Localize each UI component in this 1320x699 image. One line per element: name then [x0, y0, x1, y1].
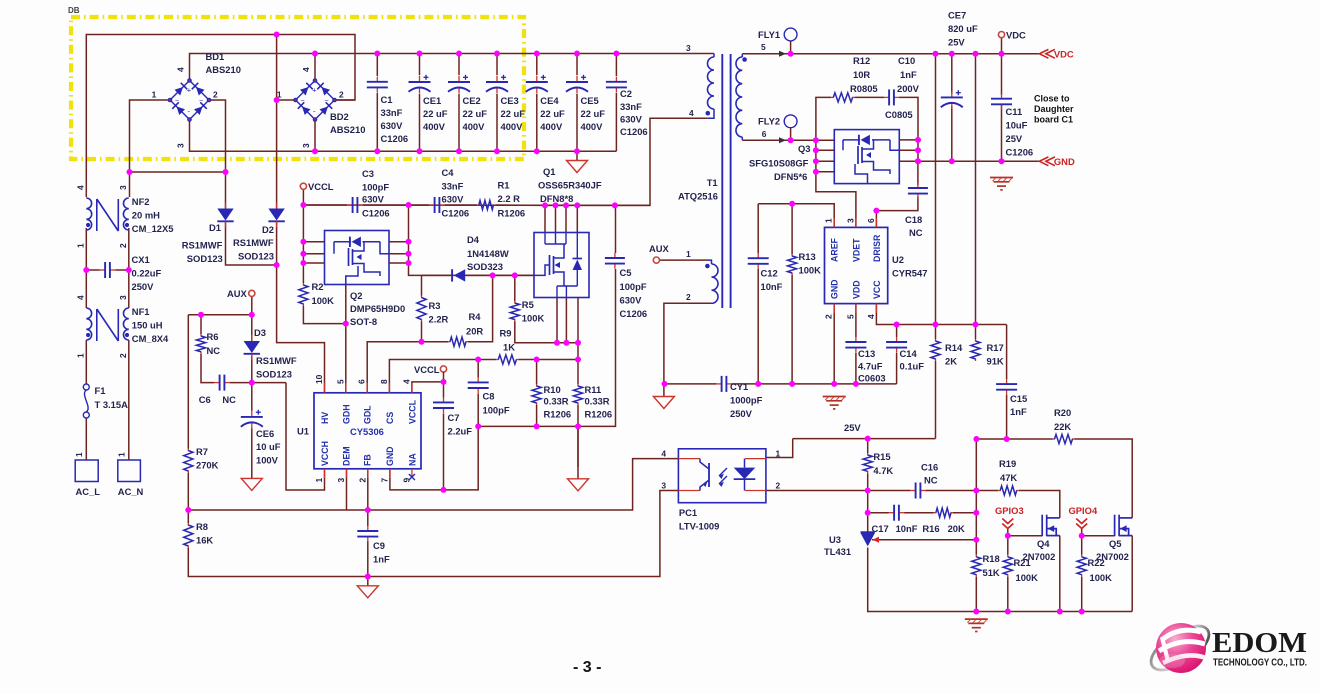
svg-text:10uF: 10uF	[1006, 120, 1028, 131]
svg-text:1: 1	[152, 90, 157, 100]
wire R19 to Q4 drain	[976, 490, 998, 492]
wire U2 pin4 VDD net y324.5	[876, 304, 1006, 325]
ground C9 net	[367, 577, 369, 586]
wire R2 column	[302, 205, 304, 283]
svg-text:2K: 2K	[945, 356, 957, 367]
svg-text:22 uF: 22 uF	[463, 108, 488, 119]
svg-text:3: 3	[661, 481, 666, 491]
svg-text:C10: C10	[898, 55, 915, 66]
svg-text:7: 7	[379, 478, 389, 483]
wire D1 cathode to D2	[226, 221, 277, 265]
svg-text:2.2 R: 2.2 R	[498, 193, 521, 204]
wire Q3 right stubs	[899, 139, 918, 141]
svg-text:2: 2	[686, 292, 691, 302]
svg-text:T 3.15A: T 3.15A	[95, 399, 129, 410]
svg-text:C2: C2	[620, 88, 632, 99]
svg-text:Close to: Close to	[1034, 94, 1070, 104]
svg-text:FLY2: FLY2	[758, 116, 780, 127]
wire U2 pin5 / C13	[855, 304, 857, 337]
ground cap bus	[576, 151, 578, 160]
svg-text:EDOM: EDOM	[1212, 627, 1307, 659]
svg-text:C1206: C1206	[620, 308, 648, 319]
wire Q3 gate to U2 pin3	[816, 172, 856, 228]
svg-text:SOD123: SOD123	[238, 251, 274, 262]
svg-text:R8: R8	[196, 521, 208, 532]
optocoupler PC1 LTV-1009	[678, 449, 766, 503]
svg-text:200V: 200V	[897, 83, 920, 94]
capacitor C1	[376, 77, 378, 82]
svg-text:R20: R20	[1054, 407, 1071, 418]
svg-text:CX1: CX1	[132, 254, 150, 265]
wire Q3 left stubs	[816, 139, 834, 141]
wire R12 loop	[816, 97, 831, 140]
wire T1 sec pin6 row	[742, 139, 816, 141]
svg-text:Q2: Q2	[350, 290, 363, 301]
svg-text:C1206: C1206	[620, 126, 648, 137]
wire VCCL2 pin4	[412, 382, 444, 393]
wire C12 column	[757, 204, 759, 253]
common-mode choke NF2	[86, 198, 91, 230]
resistor R12	[831, 96, 834, 98]
svg-text:820 uF: 820 uF	[948, 23, 978, 34]
svg-text:150 uH: 150 uH	[132, 320, 163, 331]
wire U2 pin1 AREF	[758, 204, 834, 228]
wire D2 cathode to U1 HV	[277, 221, 325, 393]
resistor R16	[934, 512, 937, 514]
capacitor C5	[614, 253, 616, 258]
wire BD2 pin stubs	[277, 99, 296, 101]
svg-text:270K: 270K	[196, 460, 219, 471]
wire R10 column	[536, 360, 538, 385]
wire CS net y359.5	[389, 360, 496, 393]
wire opto feedback y490.5	[766, 490, 868, 492]
resistor R5	[514, 301, 516, 304]
wire R5 column	[514, 275, 516, 301]
wire comp net y512.7	[867, 491, 869, 513]
svg-text:C1206: C1206	[1006, 147, 1034, 158]
IC U1 CY5306	[314, 393, 421, 469]
svg-text:2: 2	[213, 90, 218, 100]
svg-text:4: 4	[301, 67, 311, 72]
capacitor C18	[917, 183, 919, 188]
wire NF1 to F1 and AC_L	[85, 340, 87, 384]
wire R22 column	[1081, 536, 1083, 555]
resistor R9	[496, 359, 499, 361]
svg-text:C4: C4	[442, 167, 455, 178]
resistor R14	[935, 339, 937, 342]
wire gnd bus y426.4 to C5	[478, 269, 615, 426]
svg-text:Q5: Q5	[1109, 538, 1122, 549]
svg-text:NC: NC	[222, 394, 236, 405]
wire U1 pin3 DEM	[346, 469, 348, 510]
svg-text:R18: R18	[983, 553, 1000, 564]
wire U3 cathode column	[867, 513, 869, 532]
transistor Q3 SFG10S08GF	[834, 130, 899, 184]
svg-text:3: 3	[118, 185, 128, 190]
svg-text:400V: 400V	[540, 121, 563, 132]
svg-text:2N7002: 2N7002	[1096, 551, 1129, 562]
wire GDL net y341.7	[367, 342, 448, 393]
capacitor C11	[1001, 94, 1003, 99]
bridge rectifier BD1	[170, 81, 190, 101]
svg-text:5: 5	[335, 379, 345, 384]
svg-text:630V: 630V	[620, 295, 643, 306]
svg-text:2.2R: 2.2R	[429, 314, 449, 325]
wire BD1 pin1 to NF2	[130, 100, 171, 197]
capacitor CE6	[251, 411, 253, 417]
svg-text:33nF: 33nF	[381, 107, 403, 118]
wire FB net y510	[188, 459, 678, 510]
resistor R2	[302, 283, 304, 286]
svg-text:R14: R14	[945, 342, 963, 353]
svg-text:C9: C9	[373, 540, 385, 551]
wire C8 column	[477, 360, 479, 378]
svg-text:C7: C7	[448, 412, 460, 423]
wire VCCL net y205	[302, 186, 304, 205]
fuse F1	[83, 384, 89, 390]
svg-text:AC_N: AC_N	[118, 486, 144, 497]
wire R18 column	[975, 439, 977, 555]
svg-text:3: 3	[336, 478, 346, 483]
svg-text:board C1: board C1	[1034, 115, 1073, 125]
svg-text:400V: 400V	[501, 121, 524, 132]
svg-text:4: 4	[75, 295, 85, 300]
svg-text:1: 1	[686, 249, 691, 259]
svg-text:6: 6	[762, 129, 767, 139]
svg-text:2: 2	[357, 478, 367, 483]
svg-text:2: 2	[776, 481, 781, 491]
wire Q5 drain/source	[1131, 536, 1133, 612]
capacitor C15	[1006, 379, 1008, 384]
svg-text:51K: 51K	[983, 567, 1000, 578]
svg-text:U1: U1	[297, 426, 309, 437]
DB bulk-cap region outline	[71, 17, 524, 159]
svg-text:2.2uF: 2.2uF	[448, 426, 473, 437]
svg-text:ABS210: ABS210	[330, 124, 365, 135]
svg-text:D2: D2	[262, 224, 274, 235]
svg-text:SOD123: SOD123	[256, 369, 292, 380]
wire U1 gnd pin7	[390, 426, 478, 490]
svg-text:10: 10	[314, 374, 324, 384]
resistor R3	[421, 296, 423, 299]
wire FLY1 stub	[790, 41, 792, 54]
svg-text:R3: R3	[429, 300, 441, 311]
port VDC	[998, 31, 1004, 37]
svg-text:C1: C1	[381, 94, 393, 105]
svg-text:3: 3	[301, 143, 311, 148]
wire T1 sec pin5 bus to VDC	[742, 53, 1039, 55]
svg-text:22 uF: 22 uF	[423, 108, 448, 119]
svg-text:RS1MWF: RS1MWF	[233, 237, 274, 248]
svg-text:FLY1: FLY1	[758, 29, 780, 40]
svg-text:100pF: 100pF	[483, 405, 510, 416]
svg-text:100K: 100K	[799, 265, 822, 276]
wire R14 column	[935, 54, 937, 339]
svg-text:6: 6	[357, 379, 367, 384]
connector AC_L	[75, 460, 98, 482]
common-mode choke NF1	[86, 308, 91, 340]
svg-text:CYR547: CYR547	[892, 268, 927, 279]
svg-text:1: 1	[776, 449, 781, 459]
wire Q4 source	[1059, 536, 1061, 612]
svg-text:22 uF: 22 uF	[581, 108, 606, 119]
transistor Q1 OSS65R340JF	[534, 233, 589, 298]
capacitor C10	[884, 96, 890, 98]
svg-text:100K: 100K	[1016, 572, 1039, 583]
ground earth U2	[823, 396, 846, 398]
svg-text:4.7uF: 4.7uF	[858, 361, 883, 372]
svg-text:4: 4	[75, 185, 85, 190]
svg-text:20 mH: 20 mH	[132, 210, 160, 221]
svg-text:R4: R4	[469, 311, 482, 322]
capacitor C16	[910, 490, 916, 492]
wire Q2 gate to U1 GDH	[345, 285, 347, 393]
svg-text:R17: R17	[987, 342, 1004, 353]
wire D4 net y275.4	[409, 263, 535, 275]
svg-text:CE3: CE3	[501, 95, 519, 106]
svg-text:0.33R: 0.33R	[544, 396, 569, 407]
capacitor CE1	[419, 76, 421, 82]
svg-text:91K: 91K	[987, 356, 1004, 367]
svg-text:R16: R16	[922, 523, 939, 534]
svg-text:NF2: NF2	[132, 196, 150, 207]
svg-text:AUX: AUX	[649, 243, 670, 254]
capacitor CE7	[951, 91, 953, 97]
svg-text:CY1: CY1	[730, 381, 748, 392]
svg-text:R1206: R1206	[544, 409, 572, 420]
wire BD1-BD2 link y172	[130, 171, 226, 173]
svg-text:22 uF: 22 uF	[540, 108, 565, 119]
svg-text:22K: 22K	[1054, 421, 1071, 432]
svg-text:2: 2	[118, 243, 128, 248]
svg-text:1: 1	[117, 452, 127, 457]
svg-text:CE2: CE2	[463, 95, 481, 106]
svg-text:1nF: 1nF	[1010, 406, 1027, 417]
svg-text:R15: R15	[873, 451, 890, 462]
diode D1	[225, 203, 227, 209]
svg-text:R5: R5	[522, 299, 534, 310]
svg-text:10nF: 10nF	[896, 523, 918, 534]
svg-text:SOD123: SOD123	[187, 253, 223, 264]
resistor R13	[791, 254, 793, 257]
port AUX transformer	[653, 257, 659, 263]
diode D4	[454, 269, 466, 281]
wire aux pin2	[664, 303, 712, 384]
wire R21 column	[1007, 536, 1009, 555]
svg-text:AREF: AREF	[830, 237, 840, 262]
svg-text:T1: T1	[707, 177, 718, 188]
svg-text:VDC: VDC	[1006, 30, 1026, 41]
wire BD2 pin1 column	[276, 35, 278, 209]
capacitor C2	[615, 77, 617, 82]
svg-text:C18: C18	[905, 214, 922, 225]
svg-text:NF1: NF1	[132, 306, 150, 317]
svg-text:NC: NC	[207, 345, 221, 356]
svg-text:R12: R12	[853, 55, 870, 66]
wire cap bottom bus y151.2	[190, 119, 617, 151]
svg-text:10 uF: 10 uF	[256, 441, 281, 452]
resistor R1	[477, 204, 480, 206]
svg-text:VDD: VDD	[851, 280, 861, 299]
svg-text:LTV-1009: LTV-1009	[679, 521, 719, 532]
ground earth bottom rail	[965, 618, 988, 620]
svg-text:C12: C12	[761, 268, 778, 279]
resistor R6	[200, 334, 202, 337]
svg-text:+: +	[187, 86, 192, 95]
svg-text:C13: C13	[858, 348, 875, 359]
svg-text:47K: 47K	[1000, 472, 1017, 483]
wire C7 column	[443, 382, 445, 398]
resistor R20	[1053, 438, 1056, 440]
wire U3 ref y539.7	[872, 539, 976, 541]
svg-text:C11: C11	[1006, 106, 1023, 117]
wire Q1 source row	[557, 342, 578, 344]
wire FLY2 stub	[790, 128, 792, 141]
connector AC_N	[118, 460, 141, 482]
svg-text:R0805: R0805	[850, 83, 878, 94]
svg-text:D3: D3	[254, 327, 266, 338]
svg-text:ABS210: ABS210	[206, 64, 241, 75]
svg-text:SFG10S08GF: SFG10S08GF	[749, 158, 809, 169]
resistor R8	[187, 510, 189, 523]
svg-text:16K: 16K	[196, 535, 213, 546]
resistor R22	[1081, 555, 1083, 558]
svg-text:C8: C8	[483, 391, 495, 402]
IC U2 CYR547	[825, 227, 888, 303]
svg-text:DEM: DEM	[341, 446, 351, 466]
wire U2 pin2 GND	[833, 304, 835, 384]
svg-text:RS1MWF: RS1MWF	[182, 240, 223, 251]
svg-text:GDL: GDL	[363, 405, 373, 424]
svg-text:R6: R6	[207, 331, 219, 342]
wire C18 net	[917, 161, 919, 185]
capacitor CE2	[458, 76, 460, 82]
svg-text:25V: 25V	[948, 37, 965, 48]
svg-text:4: 4	[661, 449, 666, 459]
ground CE6	[241, 478, 262, 490]
svg-text:1000pF: 1000pF	[730, 395, 763, 406]
wire gnd bus y383.9 aux	[665, 383, 717, 385]
svg-text:1nF: 1nF	[900, 69, 917, 80]
svg-text:1nF: 1nF	[373, 554, 390, 565]
svg-text:2: 2	[824, 314, 834, 319]
wire R7 R8 column	[187, 315, 189, 449]
bridge rectifier BD2	[296, 81, 316, 101]
svg-text:DFN8*8: DFN8*8	[540, 193, 573, 204]
svg-text:DFN5*6: DFN5*6	[774, 171, 807, 182]
wire CE7 column	[951, 54, 953, 94]
svg-text:630V: 630V	[381, 120, 404, 131]
resistor R10	[536, 384, 538, 387]
resistor R17	[975, 339, 977, 342]
svg-text:33nF: 33nF	[620, 101, 642, 112]
flying lead FLY1	[784, 28, 797, 41]
svg-text:100pF: 100pF	[362, 182, 389, 193]
svg-text:4: 4	[176, 67, 186, 72]
svg-text:VCCL: VCCL	[308, 181, 334, 192]
svg-text:630V: 630V	[620, 114, 643, 125]
resistor R11	[577, 384, 579, 387]
wire gnd rail y576.5 right	[368, 491, 679, 577]
svg-text:DMP65H9D0: DMP65H9D0	[350, 303, 405, 314]
svg-text:FB: FB	[363, 454, 373, 466]
svg-text:2N7002: 2N7002	[1023, 551, 1056, 562]
wire rectified + bus y53.5	[190, 54, 715, 82]
resistor R15	[867, 453, 869, 456]
svg-text:D1: D1	[209, 222, 221, 233]
svg-text:~: ~	[301, 98, 305, 105]
svg-text:+: +	[312, 86, 317, 95]
svg-text:C1206: C1206	[362, 208, 390, 219]
svg-text:4: 4	[866, 314, 876, 319]
svg-text:33nF: 33nF	[442, 181, 464, 192]
junction dots	[274, 32, 280, 38]
capacitor C9	[367, 526, 369, 531]
svg-text:4: 4	[689, 108, 694, 118]
transistor Q2 DMP65H9D0	[325, 231, 390, 285]
svg-text:5: 5	[845, 314, 855, 319]
offpage connector VDC	[1039, 49, 1055, 58]
ground Q1 source net	[577, 426, 579, 478]
svg-text:AC_L: AC_L	[76, 486, 101, 497]
svg-text:TL431: TL431	[824, 546, 851, 557]
svg-text:D4: D4	[467, 234, 480, 245]
wire R4 right to D4	[468, 275, 493, 341]
svg-text:- 3 -: - 3 -	[573, 659, 601, 676]
capacitor CE3	[496, 76, 498, 82]
svg-text:10nF: 10nF	[761, 281, 783, 292]
wire 25V right segment	[976, 438, 1052, 440]
ground aux	[663, 384, 665, 397]
svg-text:OSS65R340JF: OSS65R340JF	[538, 180, 602, 191]
svg-text:C15: C15	[1010, 393, 1027, 404]
svg-text:C16: C16	[921, 462, 938, 473]
svg-text:1N4148W: 1N4148W	[467, 248, 509, 259]
svg-text:CE5: CE5	[581, 95, 599, 106]
svg-text:~: ~	[199, 98, 203, 105]
svg-text:BD1: BD1	[206, 51, 225, 62]
svg-text:GND: GND	[1054, 156, 1075, 167]
svg-text:20R: 20R	[466, 326, 483, 337]
svg-text:100pF: 100pF	[620, 281, 647, 292]
svg-text:630V: 630V	[442, 194, 465, 205]
capacitor C8	[477, 377, 479, 382]
svg-text:1: 1	[75, 353, 85, 358]
svg-text:~: ~	[175, 98, 179, 105]
svg-text:20K: 20K	[948, 523, 965, 534]
wire GPIO3 net	[1007, 529, 1009, 536]
diode D2	[276, 203, 278, 209]
svg-text:GPIO4: GPIO4	[1069, 505, 1098, 516]
svg-text:1: 1	[75, 243, 85, 248]
svg-text:0.1uF: 0.1uF	[900, 361, 925, 372]
svg-text:DB: DB	[68, 6, 80, 15]
svg-text:C6: C6	[199, 394, 211, 405]
svg-text:NC: NC	[924, 475, 938, 486]
svg-text:1: 1	[314, 478, 324, 483]
EDOM logo	[1144, 617, 1307, 678]
svg-text:VDC: VDC	[1054, 48, 1074, 59]
svg-text:R1: R1	[498, 180, 510, 191]
svg-text:R2: R2	[312, 281, 324, 292]
svg-text:100K: 100K	[522, 313, 545, 324]
svg-text:C0603: C0603	[858, 373, 886, 384]
svg-text:R10: R10	[544, 384, 561, 395]
no-connect U1 pin9	[411, 469, 413, 477]
svg-text:RS1MWF: RS1MWF	[256, 355, 297, 366]
wire R15 column	[867, 439, 869, 453]
svg-text:3: 3	[118, 295, 128, 300]
